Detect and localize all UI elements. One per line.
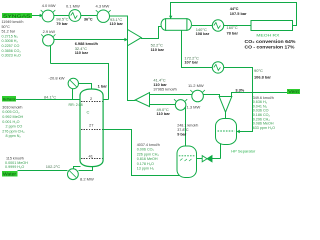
svg-text:HP Separator: HP Separator — [231, 149, 256, 154]
svg-text:8.2 MW: 8.2 MW — [80, 177, 94, 182]
svg-text:CO₂ conversion 64%: CO₂ conversion 64% — [245, 39, 296, 44]
svg-text:36°C: 36°C — [84, 16, 93, 21]
svg-text:2 ppm CO: 2 ppm CO — [6, 125, 23, 129]
svg-text:1.3 MW: 1.3 MW — [187, 104, 201, 109]
svg-text:CO - conversion 17%: CO - conversion 17% — [245, 44, 295, 49]
svg-text:6.988 kmol/h: 6.988 kmol/h — [75, 41, 99, 46]
svg-text:-20.8 kW: -20.8 kW — [49, 75, 65, 80]
svg-text:0.2715 N₂: 0.2715 N₂ — [2, 34, 19, 38]
svg-text:0.006 CO₂: 0.006 CO₂ — [137, 148, 155, 152]
svg-text:Methanol: Methanol — [3, 97, 16, 101]
svg-text:4.0 MW: 4.0 MW — [42, 3, 56, 8]
svg-text:110 bar: 110 bar — [110, 21, 124, 26]
svg-text:C: C — [87, 110, 90, 115]
svg-text:106.8 bar: 106.8 bar — [254, 74, 271, 79]
svg-text:248.1 kmol/h: 248.1 kmol/h — [177, 124, 198, 128]
svg-text:110 bar: 110 bar — [75, 50, 89, 55]
svg-text:0.0001 MeOH: 0.0001 MeOH — [5, 161, 28, 165]
svg-text:37965 kmol/h: 37965 kmol/h — [153, 86, 176, 91]
svg-text:0.005 CO₂: 0.005 CO₂ — [2, 110, 20, 114]
svg-text:41: 41 — [89, 154, 94, 159]
svg-text:SYNGAS: SYNGAS — [3, 13, 31, 18]
svg-text:Water: Water — [3, 172, 17, 177]
svg-text:1 bar: 1 bar — [98, 83, 108, 88]
svg-text:13 ppm H₂: 13 ppm H₂ — [137, 167, 155, 171]
svg-text:84.1°C: 84.1°C — [44, 95, 56, 100]
svg-text:110 bar: 110 bar — [151, 47, 165, 52]
svg-text:11949 kmol/h: 11949 kmol/h — [2, 20, 24, 24]
svg-text:102.2°C: 102.2°C — [46, 164, 61, 169]
svg-text:0.3023 H₂O: 0.3023 H₂O — [2, 54, 21, 58]
svg-text:633 ppm H₂O: 633 ppm H₂O — [253, 126, 275, 130]
svg-text:50°C: 50°C — [2, 25, 11, 29]
svg-text:110 bar: 110 bar — [157, 111, 171, 116]
svg-text:37.8°C: 37.8°C — [177, 128, 189, 132]
svg-text:0.992 MeOH: 0.992 MeOH — [2, 115, 23, 119]
svg-text:115 kmol/h: 115 kmol/h — [6, 156, 24, 160]
svg-text:0.1 MW: 0.1 MW — [66, 3, 80, 8]
svg-text:78 bar: 78 bar — [227, 31, 239, 36]
svg-text:226 ppm CH₄: 226 ppm CH₄ — [137, 152, 160, 156]
svg-text:79 bar: 79 bar — [56, 21, 68, 26]
svg-text:MEOH RX: MEOH RX — [256, 33, 279, 38]
svg-text:0.001 H₂O: 0.001 H₂O — [2, 120, 19, 124]
svg-text:108 bar: 108 bar — [196, 31, 210, 36]
svg-text:9 bar: 9 bar — [177, 133, 187, 137]
svg-text:0.2257 CO: 0.2257 CO — [2, 44, 20, 48]
svg-text:RR: 2.08: RR: 2.08 — [69, 103, 83, 107]
svg-text:0.816 MeOH: 0.816 MeOH — [137, 157, 158, 161]
svg-text:276 ppm CH₄: 276 ppm CH₄ — [2, 129, 25, 133]
svg-text:2.9 kW: 2.9 kW — [43, 29, 56, 34]
svg-text:Vent: Vent — [288, 89, 300, 94]
svg-text:0.3008 H₂: 0.3008 H₂ — [2, 39, 19, 43]
svg-text:0.9999 H₂O: 0.9999 H₂O — [5, 165, 24, 169]
svg-text:0.3656 CO₂: 0.3656 CO₂ — [2, 49, 22, 53]
svg-text:8 ppm N₂: 8 ppm N₂ — [6, 134, 22, 138]
svg-text:27: 27 — [89, 123, 94, 128]
svg-text:3010 kmol/h: 3010 kmol/h — [2, 105, 22, 109]
svg-text:107 bar: 107 bar — [184, 59, 198, 64]
svg-text:4.3 MW: 4.3 MW — [96, 3, 110, 8]
svg-text:0.178 H₂O: 0.178 H₂O — [137, 162, 154, 166]
svg-text:160°C: 160°C — [227, 25, 238, 30]
svg-text:11.2 MW: 11.2 MW — [188, 83, 204, 88]
svg-text:90°C: 90°C — [254, 68, 263, 73]
svg-text:3.3%: 3.3% — [235, 87, 244, 92]
svg-text:51.2 bar: 51.2 bar — [2, 30, 16, 34]
svg-text:4037.4 kmol/h: 4037.4 kmol/h — [137, 143, 160, 147]
svg-text:107.5 bar: 107.5 bar — [230, 11, 247, 16]
